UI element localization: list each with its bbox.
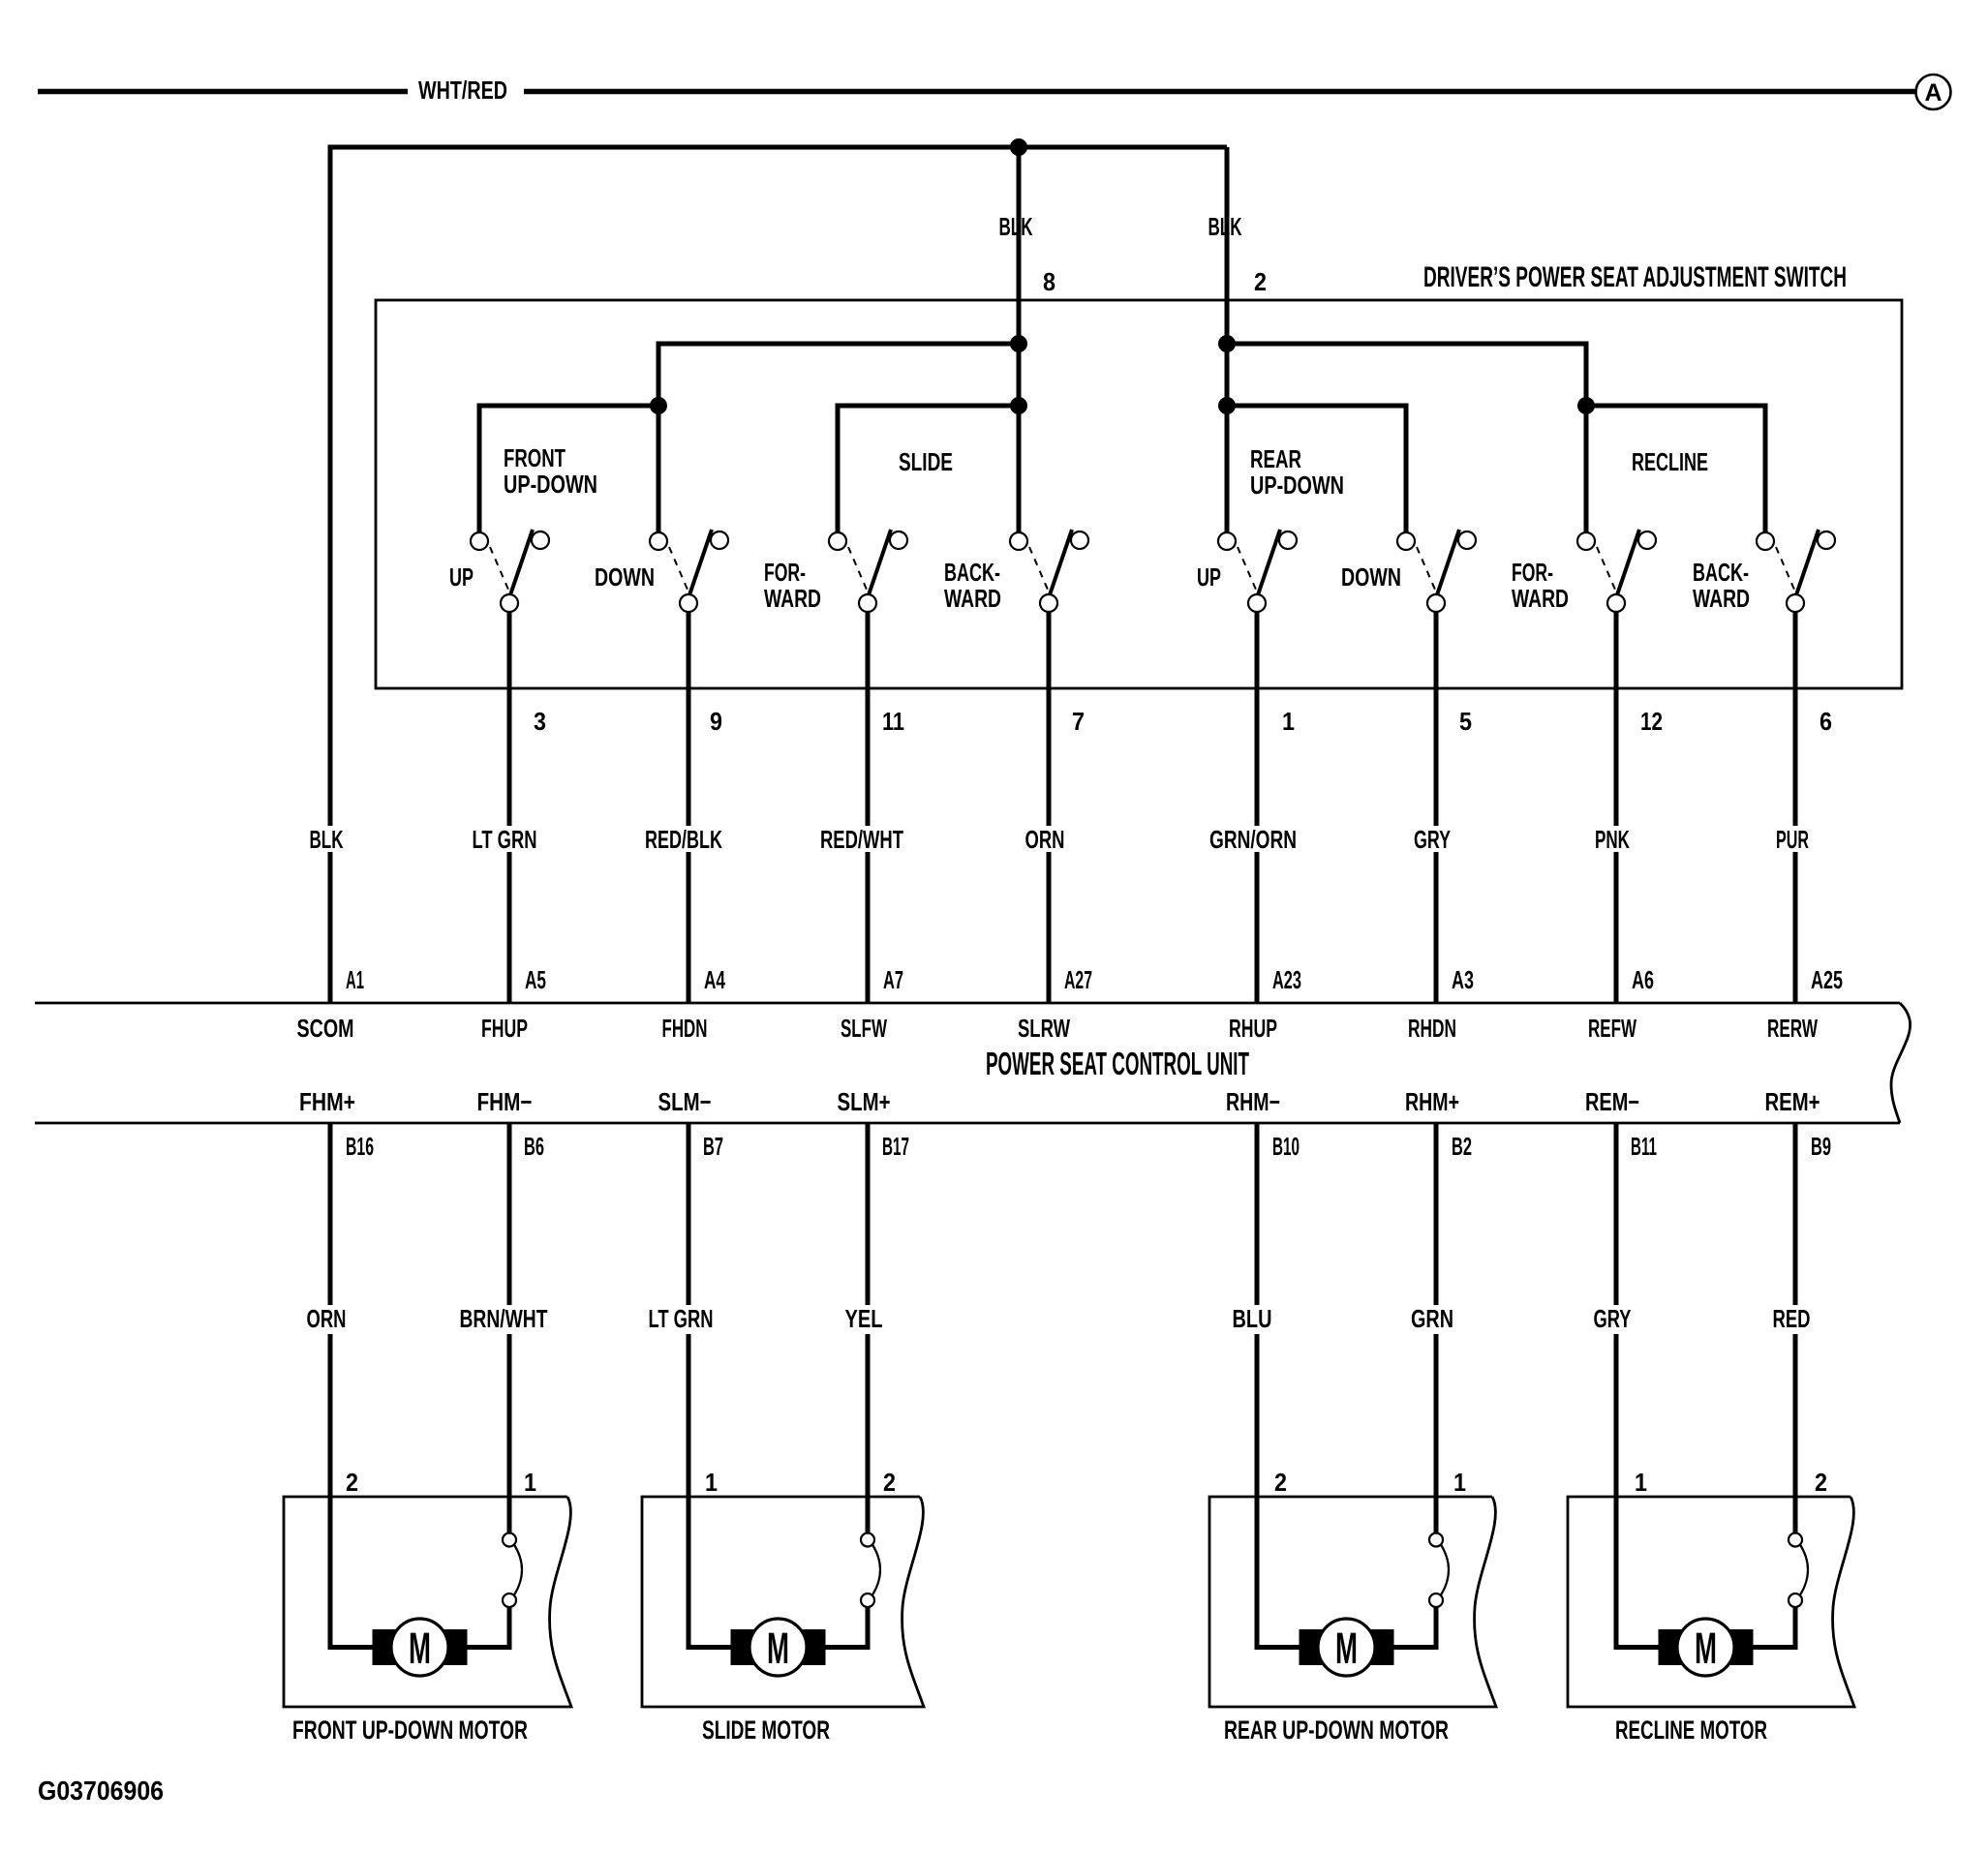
- svg-text:BLK: BLK: [1208, 212, 1242, 241]
- svg-text:SLM−: SLM−: [658, 1087, 712, 1116]
- junction dot REAR bridge: [1218, 397, 1236, 414]
- motor M2 SLIDE body M: [749, 1619, 807, 1676]
- svg-text:A27: A27: [1064, 965, 1092, 994]
- svg-text:LT GRN: LT GRN: [473, 825, 537, 854]
- label REAR UP-DOWN: [1250, 444, 1344, 500]
- wire GRN B2 to motor pin 1: [1434, 1123, 1439, 1497]
- svg-text:WHT/RED: WHT/RED: [418, 76, 507, 105]
- switch SLIDE BACKWARD: [1010, 530, 1088, 612]
- wire RED B9 to motor pin 2: [1793, 1123, 1798, 1497]
- svg-text:A5: A5: [525, 965, 546, 994]
- wire motor M1 FRONT UP-DOWN left lead: [330, 1497, 373, 1648]
- svg-text:RHUP: RHUP: [1229, 1014, 1277, 1043]
- connector contact lower (motor M4 RECLINE): [1789, 1594, 1802, 1607]
- connector contact lower (motor M3 REAR UP-DOWN): [1429, 1594, 1443, 1607]
- wire RED/BLK pin 9 to A4: [687, 612, 691, 1003]
- motor M3 REAR UP-DOWN brush terminals: [1300, 1629, 1323, 1665]
- svg-text:FOR-: FOR-: [764, 558, 806, 587]
- junction dot FRONT bridge: [650, 397, 667, 414]
- svg-text:M: M: [767, 1624, 789, 1673]
- svg-text:BLK: BLK: [999, 212, 1033, 241]
- svg-text:LT GRN: LT GRN: [649, 1304, 714, 1333]
- svg-text:UP-DOWN: UP-DOWN: [1250, 471, 1344, 500]
- svg-text:B11: B11: [1631, 1132, 1657, 1161]
- svg-text:UP-DOWN: UP-DOWN: [504, 470, 597, 499]
- svg-text:SLIDE MOTOR: SLIDE MOTOR: [702, 1715, 830, 1745]
- svg-text:SLFW: SLFW: [841, 1014, 887, 1043]
- svg-text:5: 5: [1459, 707, 1472, 736]
- svg-text:12: 12: [1640, 707, 1663, 736]
- svg-text:B10: B10: [1272, 1132, 1300, 1161]
- svg-text:UP: UP: [449, 562, 474, 592]
- svg-text:SLRW: SLRW: [1018, 1014, 1070, 1043]
- svg-text:WARD: WARD: [944, 584, 1001, 613]
- wire motor M4 RECLINE right lead lower: [1754, 1607, 1796, 1648]
- svg-text:A: A: [1924, 79, 1942, 106]
- svg-text:1: 1: [1635, 1468, 1647, 1497]
- svg-text:FHM−: FHM−: [477, 1087, 533, 1116]
- svg-text:REAR UP-DOWN MOTOR: REAR UP-DOWN MOTOR: [1224, 1715, 1449, 1745]
- svg-text:BRN/WHT: BRN/WHT: [460, 1304, 548, 1333]
- wire LT GRN pin 3 to A5: [507, 612, 512, 1003]
- svg-text:B17: B17: [882, 1132, 909, 1161]
- motor M4 RECLINE brush terminals: [1659, 1629, 1682, 1665]
- motor M1 FRONT UP-DOWN brush terminals: [373, 1629, 396, 1665]
- svg-text:BACK-: BACK-: [944, 558, 1000, 587]
- switch REAR DOWN: [1397, 530, 1476, 612]
- wire PUR pin 6 to A25: [1793, 612, 1798, 1003]
- wire motor M1 FRONT UP-DOWN right lead lower: [468, 1607, 510, 1648]
- wire motor M1 FRONT UP-DOWN right lead upper: [507, 1497, 512, 1533]
- svg-text:UP: UP: [1197, 562, 1221, 592]
- svg-text:BACK-: BACK-: [1693, 558, 1749, 587]
- svg-text:SCOM: SCOM: [297, 1014, 354, 1043]
- wire motor M3 REAR UP-DOWN right lead upper: [1434, 1497, 1439, 1533]
- svg-text:DRIVER’S POWER SEAT ADJUSTMENT: DRIVER’S POWER SEAT ADJUSTMENT SWITCH: [1423, 261, 1847, 293]
- motor M4 RECLINE body M: [1677, 1619, 1734, 1676]
- connector arc (motor M3 REAR UP-DOWN): [1441, 1545, 1449, 1595]
- junction dot RECLINE bridge: [1577, 397, 1595, 414]
- wire RED/WHT pin 11 to A7: [866, 612, 871, 1003]
- svg-text:A3: A3: [1452, 965, 1474, 994]
- connector contact upper (motor M2 SLIDE): [861, 1533, 874, 1547]
- switch RECLINE BACKWARD: [1757, 530, 1835, 612]
- motor box M3 REAR UP-DOWN: [1209, 1497, 1496, 1707]
- connector contact upper (motor M3 REAR UP-DOWN): [1429, 1533, 1443, 1547]
- svg-text:FHM+: FHM+: [299, 1087, 355, 1116]
- label FOR-WARD (slide): [764, 558, 821, 613]
- svg-text:B2: B2: [1452, 1132, 1472, 1161]
- svg-text:REFW: REFW: [1588, 1014, 1636, 1043]
- motor box M2 SLIDE: [642, 1497, 924, 1707]
- svg-text:ORN: ORN: [1025, 825, 1065, 854]
- driver's power seat adjustment switch box: [376, 300, 1902, 688]
- wire ORN B16 to motor pin 2: [328, 1123, 333, 1497]
- svg-text:WARD: WARD: [1693, 584, 1750, 613]
- motor M3 REAR UP-DOWN body M: [1318, 1619, 1375, 1676]
- svg-text:6: 6: [1820, 707, 1832, 736]
- svg-text:REAR: REAR: [1250, 444, 1301, 473]
- connector arc (motor M1 FRONT UP-DOWN): [514, 1545, 522, 1595]
- svg-text:GRY: GRY: [1414, 825, 1451, 854]
- svg-text:1: 1: [1282, 707, 1295, 736]
- wire motor M3 REAR UP-DOWN left lead: [1257, 1497, 1300, 1648]
- junction dot pin8/branch-left: [1010, 335, 1027, 352]
- motor box M4 RECLINE: [1568, 1497, 1854, 1707]
- wire bridge FRONT UP-DOWN: [479, 406, 658, 532]
- wire PNK pin 12 to A6: [1614, 612, 1619, 1003]
- connector contact lower (motor M2 SLIDE): [861, 1594, 874, 1607]
- svg-text:1: 1: [1453, 1468, 1466, 1497]
- switch FRONT UP: [471, 530, 549, 612]
- svg-text:M: M: [409, 1624, 431, 1673]
- label FOR-WARD (recline): [1512, 558, 1569, 613]
- wire main BLK feed (corner at left, horizontal run): [330, 147, 1227, 826]
- svg-text:9: 9: [710, 707, 722, 736]
- svg-text:BLU: BLU: [1233, 1304, 1272, 1333]
- svg-text:SLIDE: SLIDE: [899, 447, 953, 476]
- wire BLK to pin 8: [1017, 147, 1022, 532]
- wire ORN pin 7 to A27: [1047, 612, 1052, 1003]
- svg-text:A25: A25: [1811, 965, 1843, 994]
- svg-text:POWER SEAT CONTROL UNIT: POWER SEAT CONTROL UNIT: [986, 1046, 1249, 1081]
- label FRONT UP-DOWN: [504, 443, 597, 499]
- svg-text:2: 2: [883, 1468, 896, 1497]
- junction dot feed/pin8: [1010, 138, 1027, 156]
- svg-text:A4: A4: [704, 965, 725, 994]
- svg-text:RED: RED: [1773, 1304, 1811, 1333]
- svg-text:2: 2: [1274, 1468, 1287, 1497]
- wire GRY B11 to motor pin 1: [1614, 1123, 1619, 1497]
- wire motor M3 REAR UP-DOWN right lead lower: [1394, 1607, 1437, 1648]
- wire WHT/RED bus: [38, 89, 1915, 95]
- svg-text:2: 2: [1254, 267, 1267, 296]
- svg-text:RHM−: RHM−: [1226, 1087, 1280, 1116]
- wire BLU B10 to motor pin 2: [1255, 1123, 1260, 1497]
- wire BRN/WHT B6 to motor pin 1: [507, 1123, 512, 1497]
- svg-text:RED/BLK: RED/BLK: [645, 825, 722, 854]
- svg-text:GRN: GRN: [1411, 1304, 1453, 1333]
- wire SCOM lower segment to control unit: [328, 852, 333, 1003]
- connector arc (motor M4 RECLINE): [1800, 1545, 1808, 1595]
- svg-text:B7: B7: [703, 1132, 723, 1161]
- svg-text:RECLINE MOTOR: RECLINE MOTOR: [1615, 1715, 1767, 1745]
- switch FRONT DOWN: [650, 530, 728, 612]
- motor box M1 FRONT UP-DOWN: [284, 1497, 571, 1707]
- connector A: [1916, 75, 1951, 109]
- wire bridge SLIDE: [838, 406, 1019, 532]
- svg-text:M: M: [1335, 1624, 1358, 1673]
- svg-text:M: M: [1695, 1624, 1717, 1673]
- wire motor M2 SLIDE right lead lower: [826, 1607, 869, 1648]
- wire LT GRN B7 to motor pin 1: [687, 1123, 691, 1497]
- svg-text:RED/WHT: RED/WHT: [820, 825, 903, 854]
- svg-text:7: 7: [1072, 707, 1085, 736]
- connector arc (motor M2 SLIDE): [872, 1545, 880, 1595]
- wire YEL B17 to motor pin 2: [866, 1123, 871, 1497]
- wire feed branch left (inside switch box): [658, 344, 1019, 406]
- svg-text:G03706906: G03706906: [38, 1776, 164, 1806]
- svg-text:A23: A23: [1272, 965, 1301, 994]
- svg-text:GRN/ORN: GRN/ORN: [1209, 825, 1297, 854]
- svg-text:A1: A1: [346, 965, 364, 994]
- svg-text:DOWN: DOWN: [595, 562, 655, 592]
- wire motor M4 RECLINE left lead: [1616, 1497, 1659, 1648]
- svg-text:FHUP: FHUP: [481, 1014, 528, 1043]
- switch RECLINE FORWARD: [1577, 530, 1656, 612]
- wire GRN/ORN pin 1 to A23: [1255, 612, 1260, 1003]
- svg-text:RHM+: RHM+: [1405, 1087, 1459, 1116]
- svg-text:1: 1: [705, 1468, 718, 1497]
- svg-text:B16: B16: [346, 1132, 374, 1161]
- svg-text:A6: A6: [1632, 965, 1654, 994]
- svg-text:FRONT: FRONT: [504, 443, 566, 472]
- svg-text:B6: B6: [524, 1132, 544, 1161]
- svg-text:RECLINE: RECLINE: [1632, 447, 1708, 476]
- svg-text:8: 8: [1043, 267, 1055, 296]
- wire GRY pin 5 to A3: [1434, 612, 1439, 1003]
- svg-text:WARD: WARD: [1512, 584, 1569, 613]
- svg-text:RERW: RERW: [1767, 1014, 1818, 1043]
- svg-text:BLK: BLK: [310, 825, 344, 854]
- svg-text:RHDN: RHDN: [1408, 1014, 1456, 1043]
- wire motor M2 SLIDE right lead upper: [866, 1497, 871, 1533]
- wire feed branch right (inside switch box): [1227, 344, 1586, 406]
- svg-text:REM−: REM−: [1585, 1087, 1639, 1116]
- svg-text:GRY: GRY: [1594, 1304, 1632, 1333]
- svg-text:PUR: PUR: [1776, 825, 1809, 854]
- connector contact lower (motor M1 FRONT UP-DOWN): [503, 1594, 516, 1607]
- svg-text:FRONT UP-DOWN MOTOR: FRONT UP-DOWN MOTOR: [292, 1715, 528, 1745]
- svg-text:11: 11: [882, 707, 904, 736]
- switch REAR UP: [1218, 530, 1297, 612]
- wire BLK to pin 2: [1225, 147, 1230, 532]
- label BACK-WARD (slide): [944, 558, 1001, 613]
- svg-text:A7: A7: [883, 965, 903, 994]
- svg-text:FHDN: FHDN: [662, 1014, 708, 1043]
- svg-text:ORN: ORN: [307, 1304, 347, 1333]
- svg-text:PNK: PNK: [1595, 825, 1630, 854]
- svg-text:YEL: YEL: [845, 1304, 883, 1333]
- svg-text:2: 2: [1815, 1468, 1827, 1497]
- junction dot pin2/branch-right: [1218, 335, 1236, 352]
- svg-text:DOWN: DOWN: [1341, 562, 1401, 592]
- wire bridge REAR UP-DOWN: [1227, 406, 1406, 532]
- svg-text:REM+: REM+: [1765, 1087, 1820, 1116]
- motor M1 FRONT UP-DOWN body M: [391, 1619, 448, 1676]
- wire motor M2 SLIDE left lead: [688, 1497, 731, 1648]
- switch SLIDE FORWARD: [829, 530, 907, 612]
- wire motor M4 RECLINE right lead upper: [1793, 1497, 1798, 1533]
- motor M2 SLIDE brush terminals: [731, 1629, 754, 1665]
- power seat control unit band: [35, 1003, 1911, 1123]
- label BACK-WARD (recline): [1693, 558, 1750, 613]
- svg-text:1: 1: [524, 1468, 536, 1497]
- connector contact upper (motor M4 RECLINE): [1789, 1533, 1802, 1547]
- svg-text:B9: B9: [1811, 1132, 1831, 1161]
- wire bridge RECLINE: [1586, 406, 1765, 532]
- svg-text:WARD: WARD: [764, 584, 821, 613]
- svg-text:FOR-: FOR-: [1512, 558, 1553, 587]
- junction dot SLIDE bridge: [1010, 397, 1027, 414]
- svg-text:SLM+: SLM+: [838, 1087, 891, 1116]
- svg-text:3: 3: [534, 707, 546, 736]
- svg-text:2: 2: [346, 1468, 358, 1497]
- connector contact upper (motor M1 FRONT UP-DOWN): [503, 1533, 516, 1547]
